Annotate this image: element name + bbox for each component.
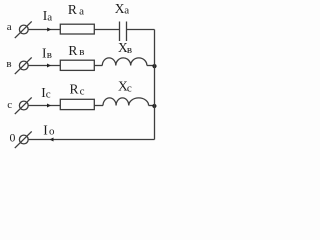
terminal b: [15, 57, 32, 74]
label Xb: [118, 40, 132, 56]
arrow Ic: [47, 104, 51, 108]
wire b-mid: [94, 65, 102, 67]
svg-text:a: a: [7, 21, 12, 33]
resistor Ra: [60, 24, 94, 34]
wire b-right: [147, 65, 155, 67]
resistor Rc: [60, 99, 94, 109]
svg-text:R: R: [70, 82, 79, 97]
svg-text:R: R: [68, 2, 77, 17]
svg-text:a: a: [79, 6, 84, 18]
terminal 0: [15, 131, 32, 148]
capacitor Xa: [120, 22, 127, 42]
svg-text:в: в: [6, 58, 11, 70]
current label Ib: [42, 45, 52, 61]
wire c-left: [28, 105, 60, 107]
wire a-right: [127, 29, 155, 31]
label Xa: [115, 1, 129, 16]
svg-text:R: R: [68, 43, 77, 58]
terminal a: [15, 21, 32, 38]
svg-text:o: o: [49, 126, 55, 138]
current label Ia: [43, 8, 53, 24]
terminal c: [15, 97, 32, 114]
wire c-right: [149, 105, 155, 107]
junction dot b: [152, 64, 156, 68]
current label Io: [43, 123, 55, 138]
arrow Ia: [47, 28, 51, 32]
label Ra: [68, 2, 84, 18]
svg-text:c: c: [80, 85, 85, 97]
inductor Xc: [103, 98, 149, 106]
label Xc: [118, 79, 132, 95]
wire c-mid: [94, 105, 103, 107]
svg-text:в: в: [47, 49, 52, 61]
arrow Io: [50, 138, 54, 142]
bus wire right: [154, 30, 156, 140]
svg-text:a: a: [124, 4, 129, 16]
wire 0: [28, 139, 154, 141]
svg-text:I: I: [43, 123, 48, 138]
inductor Xb: [102, 58, 147, 66]
svg-text:c: c: [7, 99, 12, 111]
svg-text:a: a: [47, 12, 52, 24]
svg-text:в: в: [79, 46, 84, 58]
svg-text:в: в: [127, 44, 132, 56]
resistor Rb: [60, 60, 94, 70]
arrow Ib: [47, 64, 51, 68]
label Rb: [68, 43, 84, 58]
current label Ic: [41, 85, 51, 101]
svg-text:0: 0: [10, 131, 16, 145]
label Rc: [70, 82, 85, 98]
wire b-left: [28, 65, 60, 67]
wire a-mid: [94, 29, 119, 31]
junction dot c: [152, 104, 156, 108]
wire a-left: [28, 29, 60, 31]
svg-text:c: c: [46, 88, 51, 100]
svg-text:c: c: [127, 82, 132, 94]
